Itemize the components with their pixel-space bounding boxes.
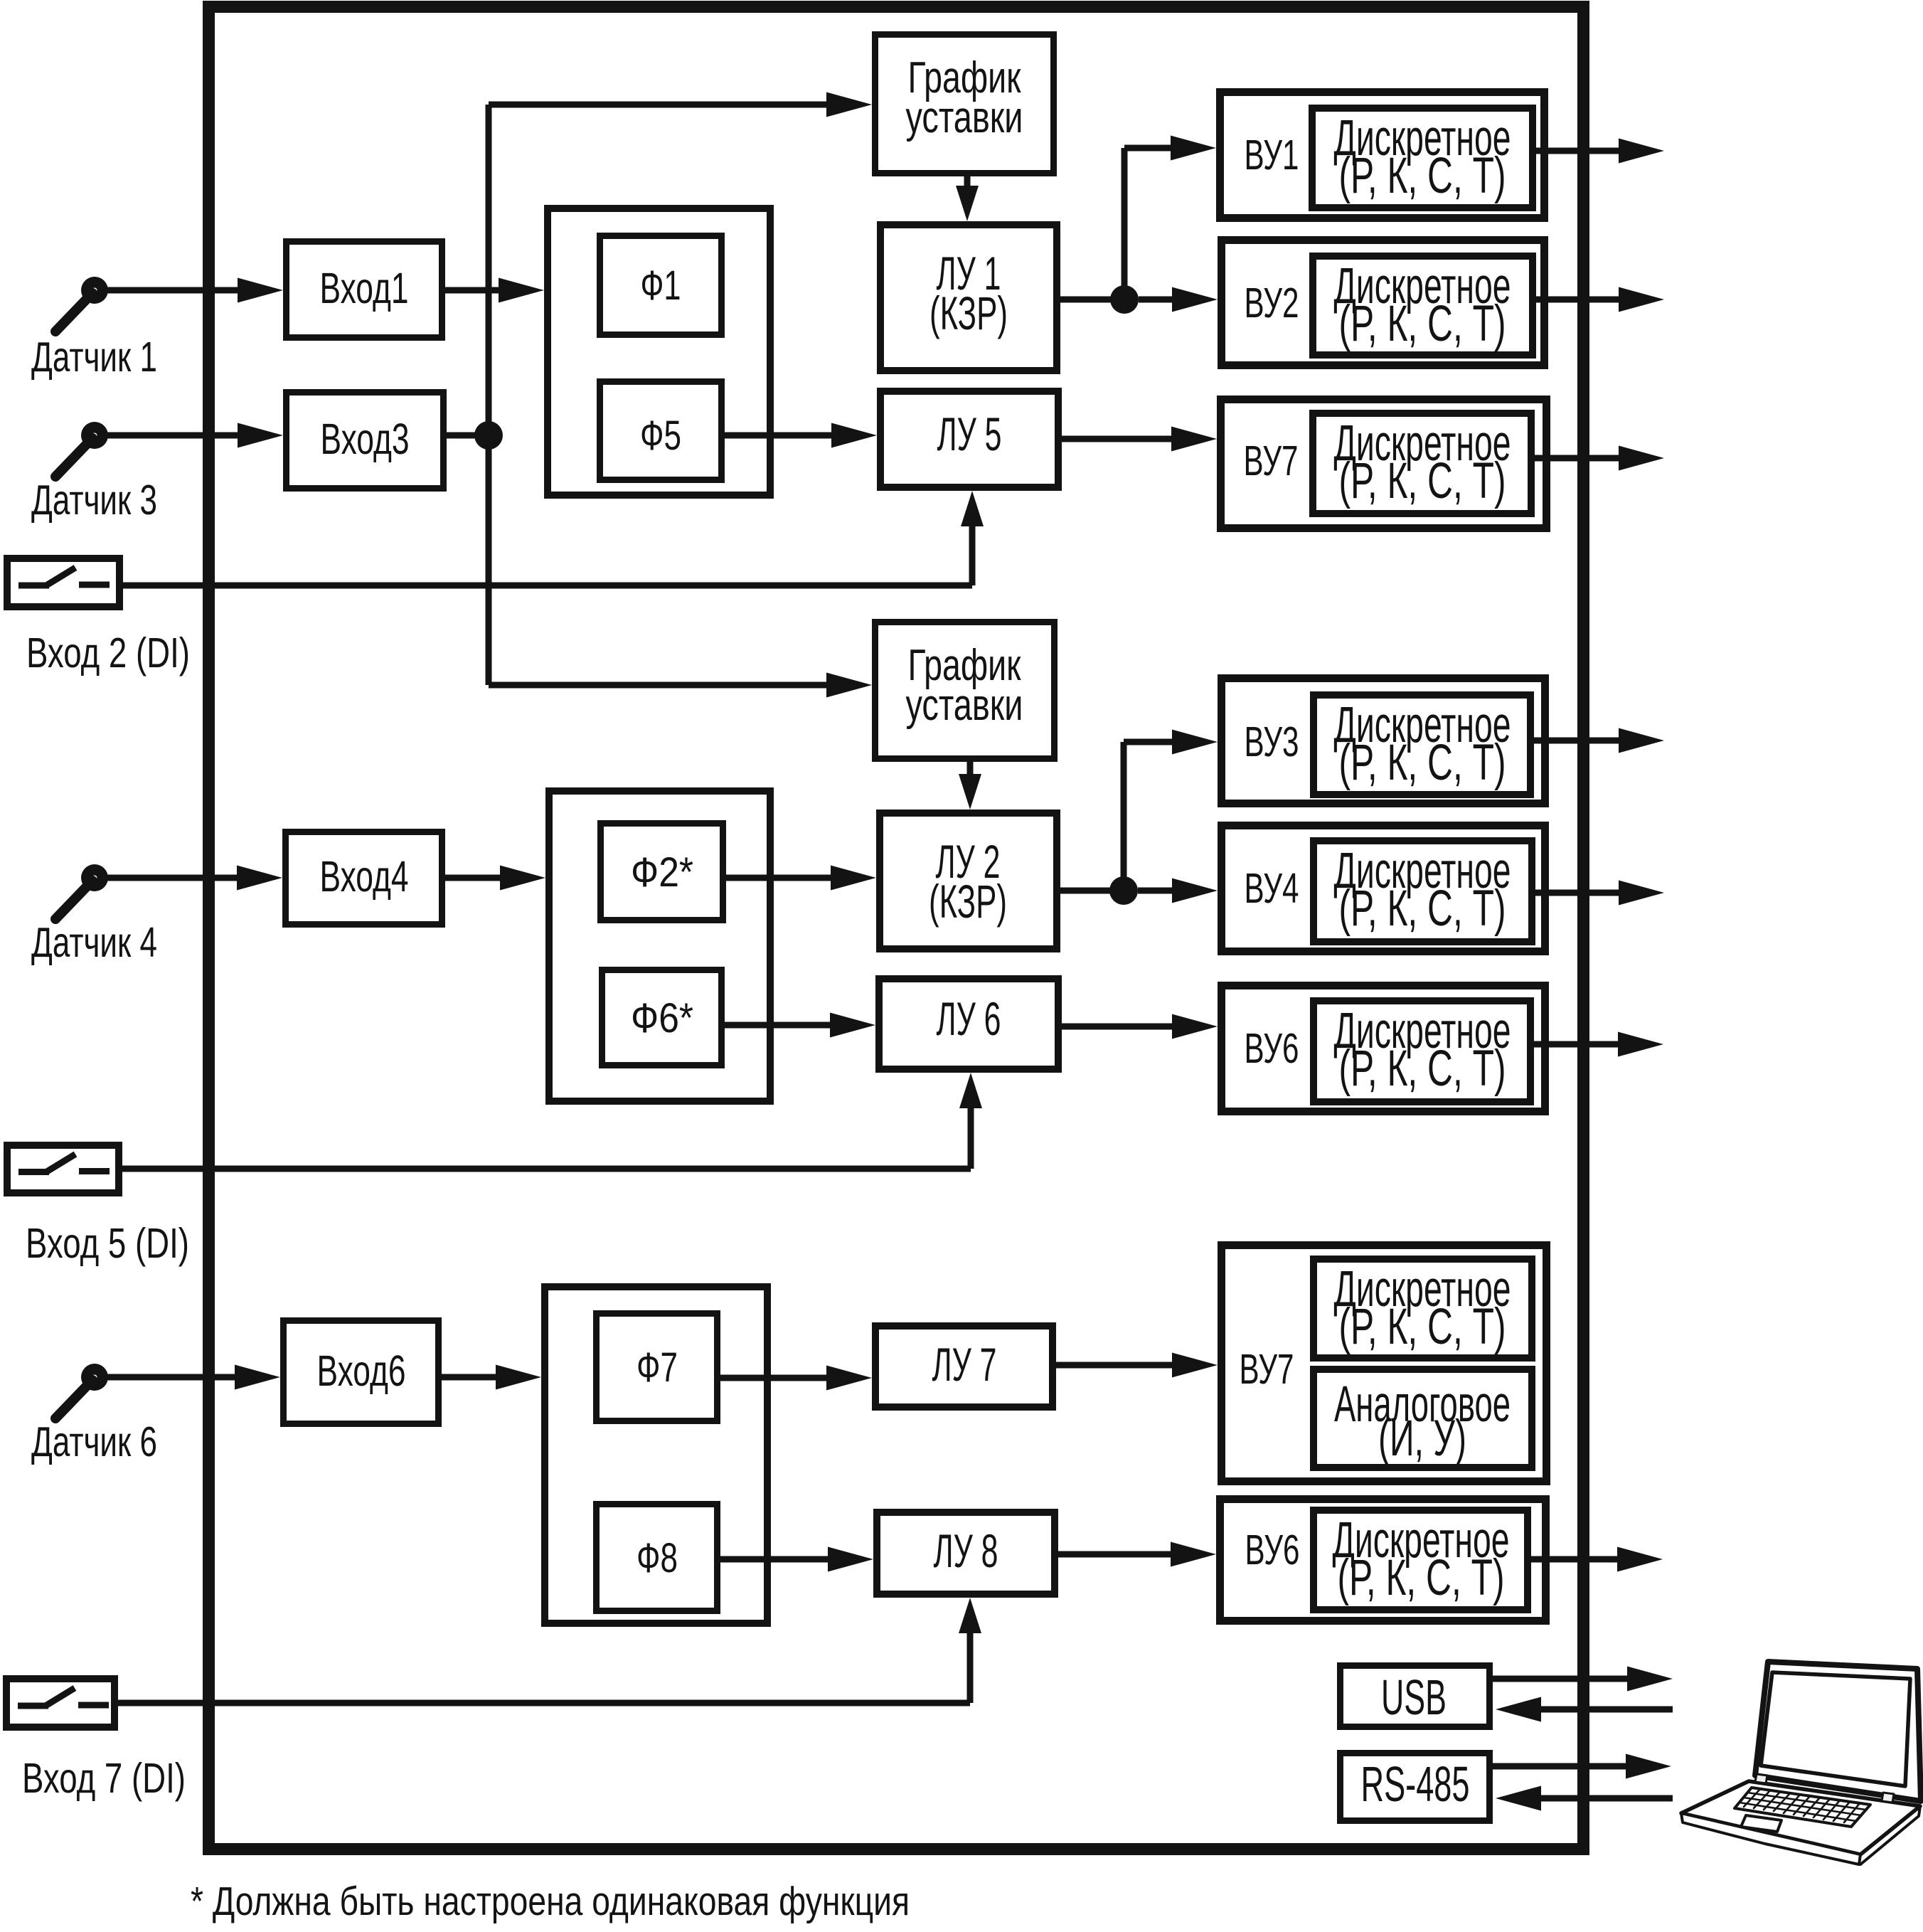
output arrow from ВУ7 section1: [1535, 455, 1623, 462]
output block ВУ1 inner Дискретное: [1312, 108, 1533, 208]
svg-text:Вход4: Вход4: [320, 852, 409, 901]
svg-text:Датчик 6: Датчик 6: [31, 1418, 157, 1465]
svg-text:Ф1: Ф1: [641, 262, 681, 309]
output block ВУ7 outer section3: [1222, 1246, 1547, 1482]
block ЛУ 7: [875, 1326, 1053, 1407]
svg-text:(Р, К, С, Т): (Р, К, С, Т): [1339, 1041, 1506, 1097]
output block ВУ2 outer: [1222, 240, 1545, 366]
svg-text:* Должна быть настроена одинак: * Должна быть настроена одинаковая функц…: [191, 1879, 910, 1924]
output block ВУ7 inner Дискретное section1: [1313, 413, 1531, 514]
arrow PC to USB in: [1537, 1707, 1673, 1713]
svg-text:Вход1: Вход1: [320, 264, 409, 312]
filter block Ф6*: [602, 970, 722, 1066]
svg-text:ВУ6: ВУ6: [1245, 1527, 1300, 1573]
wire ЛУ 5 output to ВУ7 with arrow: [1062, 436, 1176, 442]
wire Датчик 4 to Вход4 with arrow: [107, 875, 241, 881]
wire Датчик 6 to Вход6 with arrow: [107, 1374, 239, 1381]
switch input Вход 7 (DI): [6, 1679, 114, 1727]
wire Ф6 output to ЛУ 6 with arrow: [725, 1022, 834, 1029]
svg-text:(КЗР): (КЗР): [929, 875, 1007, 928]
output block ВУ6 inner Дискретное bottom: [1314, 1510, 1528, 1610]
wire Ф7 output to ЛУ 7 with arrow: [720, 1375, 831, 1381]
wire vertical branch from Вход3 junction: [486, 105, 492, 685]
svg-text:Ф5: Ф5: [640, 413, 681, 459]
filter group box 2: [549, 791, 770, 1101]
filter block Ф2*: [601, 824, 723, 920]
wire Ф5 output to ЛУ 5 with arrow: [725, 432, 836, 439]
block Вход4: [286, 832, 442, 925]
wire Вход6 output to filter group 3: [442, 1374, 500, 1381]
wire junction up to ВУ3 row: [1121, 742, 1127, 891]
svg-text:ВУ7: ВУ7: [1240, 1346, 1294, 1393]
block ЛУ 5: [880, 391, 1058, 487]
laptop computer icon: [1681, 1662, 1921, 1864]
block ЛУ 1 (КЗР): [880, 225, 1057, 371]
block RS-485: [1341, 1753, 1490, 1821]
svg-text:ЛУ 5: ЛУ 5: [937, 408, 1002, 460]
output arrow from ВУ6 bottom: [1531, 1556, 1621, 1563]
output block ВУ6 inner Дискретное section2: [1314, 1001, 1530, 1102]
svg-text:уставки: уставки: [906, 681, 1023, 730]
svg-text:Вход 5 (DI): Вход 5 (DI): [26, 1220, 189, 1267]
block ЛУ 6: [879, 979, 1058, 1069]
junction node ЛУ 2 output: [1109, 876, 1138, 905]
svg-text:ВУ7: ВУ7: [1244, 437, 1299, 484]
svg-text:Ф7: Ф7: [636, 1344, 678, 1391]
arrow Вход 7 (DI) up into ЛУ 8: [967, 1629, 974, 1703]
svg-text:Вход3: Вход3: [321, 415, 410, 463]
wire Ф2 output to ЛУ 2 with arrow: [726, 875, 835, 881]
junction node ЛУ 1 output: [1110, 285, 1139, 314]
wire junction up to ВУ1 row: [1122, 148, 1128, 299]
filter block Ф5: [600, 382, 722, 480]
wire Вход 2 (DI) line: [123, 583, 972, 589]
svg-text:(Р, К, С, Т): (Р, К, С, Т): [1339, 296, 1506, 352]
wire ЛУ 6 output to ВУ6 with arrow: [1062, 1024, 1176, 1030]
output arrow from ВУ1: [1536, 148, 1623, 154]
wire to ВУ3 with arrow: [1124, 739, 1176, 745]
svg-text:Ф2*: Ф2*: [631, 849, 693, 896]
output arrow from ВУ4: [1535, 890, 1623, 896]
svg-text:(Р, К, С, Т): (Р, К, С, Т): [1339, 148, 1506, 204]
output block ВУ3 outer: [1222, 679, 1545, 804]
block График уставки 1: [875, 35, 1054, 174]
sensor Датчик 6 symbol: [55, 1364, 108, 1418]
wire ЛУ 1 output to junction: [1060, 297, 1124, 303]
svg-text:ВУ6: ВУ6: [1245, 1025, 1299, 1072]
sensor Датчик 3 symbol: [55, 422, 108, 477]
filter group box 1: [548, 208, 770, 495]
block USB: [1341, 1666, 1490, 1727]
filter group box 3: [545, 1287, 767, 1623]
arrow RS-485 out to PC: [1493, 1763, 1630, 1770]
svg-text:(Р, К, С, Т): (Р, К, С, Т): [1338, 1550, 1505, 1606]
block ЛУ 2 (КЗР): [880, 813, 1057, 949]
output block ВУ1 outer: [1220, 92, 1545, 218]
output block ВУ3 inner Дискретное: [1314, 695, 1530, 795]
wire Вход4 output to filter group 2: [445, 875, 504, 881]
wire ЛУ 8 output to ВУ6 with arrow: [1058, 1551, 1175, 1558]
svg-text:Вход6: Вход6: [317, 1347, 406, 1395]
sensor Датчик 4 symbol: [55, 864, 108, 919]
svg-text:ВУ2: ВУ2: [1245, 280, 1299, 327]
output block ВУ4 outer: [1222, 826, 1545, 952]
svg-text:ЛУ 8: ЛУ 8: [934, 1524, 998, 1577]
wire Датчик 3 to Вход3 with arrow: [107, 432, 242, 439]
output arrow from ВУ2: [1536, 297, 1623, 303]
output block ВУ7 inner Аналоговое: [1314, 1369, 1532, 1467]
svg-text:RS-485: RS-485: [1361, 1756, 1470, 1812]
output block ВУ7 inner Дискретное section3: [1314, 1259, 1532, 1358]
svg-text:(Р, К, С, Т): (Р, К, С, Т): [1339, 453, 1506, 509]
svg-text:Датчик 3: Датчик 3: [31, 477, 157, 524]
output arrow from ВУ3: [1534, 738, 1623, 744]
wire to ВУ1 with arrow: [1124, 145, 1175, 152]
block График уставки 2: [875, 622, 1055, 759]
svg-text:(Р, К, С, Т): (Р, К, С, Т): [1339, 735, 1506, 791]
output block ВУ4 inner Дискретное: [1314, 841, 1532, 942]
wire Вход1 output to filter group 1: [445, 287, 503, 294]
svg-text:Датчик 1: Датчик 1: [31, 334, 157, 381]
arrow Вход 5 (DI) up into ЛУ 6: [968, 1104, 974, 1169]
wire junction to ВУ4 with arrow: [1138, 888, 1176, 894]
svg-text:Ф8: Ф8: [636, 1535, 678, 1581]
block Вход1: [287, 242, 442, 338]
output block ВУ6 outer bottom: [1220, 1500, 1546, 1621]
switch input Вход 2 (DI): [7, 558, 119, 607]
arrow Вход 2 (DI) up into ЛУ 5: [969, 522, 976, 585]
wire Вход 7 (DI) line: [118, 1700, 970, 1707]
wire Ф8 output to ЛУ 8 with arrow: [720, 1556, 832, 1563]
wire Вход 5 (DI) line: [122, 1166, 971, 1172]
svg-text:Вход 7 (DI): Вход 7 (DI): [22, 1755, 186, 1802]
svg-text:(И, У): (И, У): [1378, 1411, 1466, 1467]
output arrow from ВУ6 section2: [1534, 1041, 1622, 1048]
svg-text:ВУ4: ВУ4: [1245, 865, 1299, 912]
arrow График уставки 1 to ЛУ 1: [964, 176, 971, 190]
wire Датчик 1 to Вход1 with arrow: [107, 287, 242, 294]
device outer frame: [209, 7, 1584, 1849]
filter block Ф8: [597, 1504, 718, 1611]
filter block Ф1: [600, 236, 722, 335]
svg-text:USB: USB: [1381, 1670, 1447, 1725]
svg-text:ЛУ 6: ЛУ 6: [937, 992, 1001, 1045]
svg-text:Датчик 4: Датчик 4: [31, 919, 157, 966]
sensor Датчик 1 symbol: [55, 277, 108, 331]
output block ВУ2 inner Дискретное: [1313, 256, 1533, 355]
svg-text:Вход 2 (DI): Вход 2 (DI): [26, 630, 190, 676]
svg-text:ВУ1: ВУ1: [1245, 132, 1299, 179]
arrow USB out to PC: [1493, 1676, 1631, 1682]
block ЛУ 8: [877, 1512, 1055, 1594]
svg-text:ВУ3: ВУ3: [1245, 718, 1299, 765]
svg-text:(КЗР): (КЗР): [929, 287, 1008, 339]
wire Вход3 output to junction: [447, 432, 489, 439]
block Вход6: [284, 1321, 439, 1424]
svg-text:(Р, К, С, Т): (Р, К, С, Т): [1339, 1299, 1506, 1355]
output block ВУ7 outer section1: [1221, 400, 1547, 529]
wire branch to График уставки 1 with arrow: [489, 102, 831, 108]
output block ВУ6 outer section2: [1222, 986, 1545, 1112]
block Вход3: [287, 393, 444, 489]
svg-text:ЛУ 7: ЛУ 7: [932, 1338, 997, 1391]
svg-text:Ф6*: Ф6*: [631, 995, 693, 1041]
wire ЛУ 2 output to junction: [1060, 888, 1124, 894]
filter block Ф7: [597, 1314, 718, 1421]
arrow PC to RS-485 in: [1537, 1795, 1673, 1802]
switch input Вход 5 (DI): [7, 1145, 119, 1193]
svg-text:уставки: уставки: [906, 93, 1023, 142]
wire junction to ВУ2 with arrow: [1139, 297, 1176, 303]
arrow График уставки 2 to ЛУ 2: [967, 762, 974, 778]
junction node Вход3 branch: [474, 421, 503, 450]
wire ЛУ 7 output to ВУ7 with arrow: [1056, 1362, 1176, 1369]
wire branch to График уставки 2 with arrow: [489, 682, 831, 689]
svg-text:(Р, К, С, Т): (Р, К, С, Т): [1339, 881, 1506, 937]
